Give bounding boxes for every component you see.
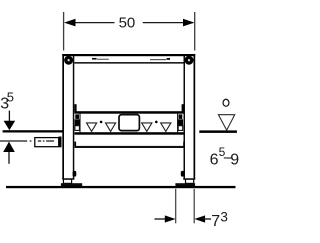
svg-text:9: 9 <box>230 151 239 168</box>
svg-text:6: 6 <box>210 151 219 168</box>
svg-text:3: 3 <box>220 209 228 224</box>
svg-text:50: 50 <box>119 15 136 32</box>
svg-text:5: 5 <box>7 89 14 104</box>
svg-text:7: 7 <box>211 213 220 230</box>
